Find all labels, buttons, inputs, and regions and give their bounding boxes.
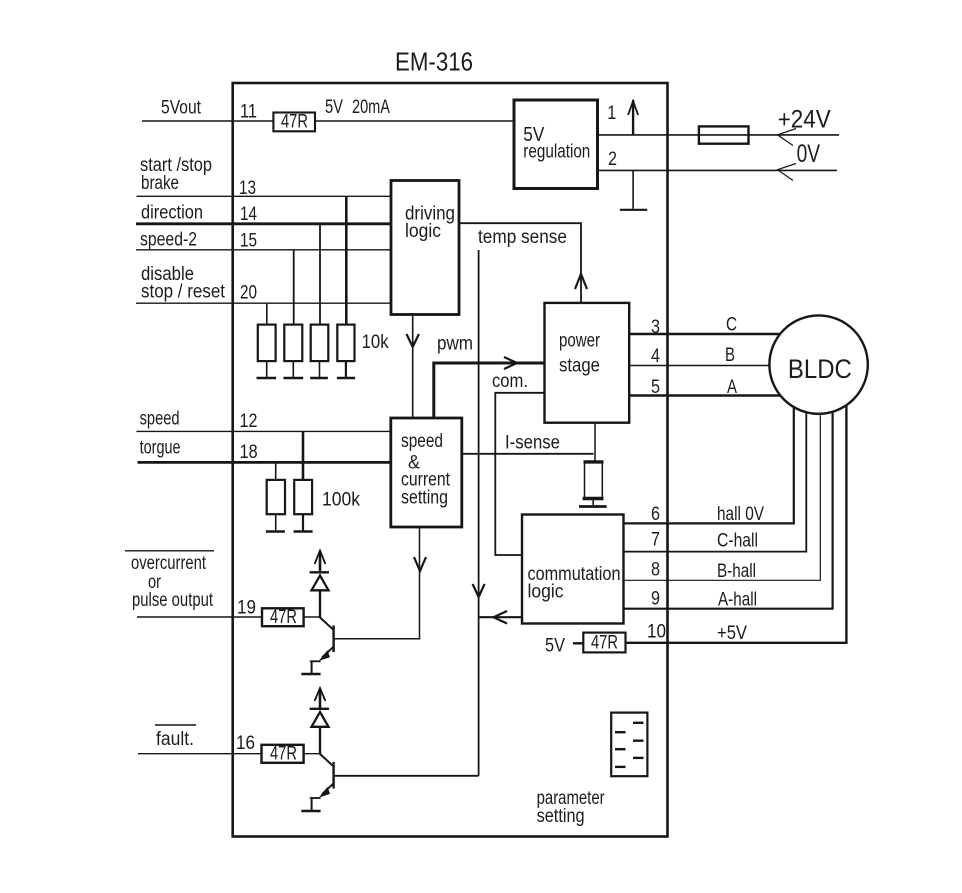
arrow left on 0V xyxy=(778,164,797,181)
wire pin18 xyxy=(138,461,392,464)
svg-text:pulse output: pulse output xyxy=(132,590,214,611)
fuse F1 xyxy=(699,126,749,143)
wire phase C xyxy=(629,333,780,335)
svg-text:com.: com. xyxy=(492,371,528,392)
label overline fault xyxy=(155,724,196,726)
svg-text:+24V: +24V xyxy=(778,106,831,134)
arrow left on +24V xyxy=(778,129,797,146)
motor BLDC M1 xyxy=(769,315,867,413)
wire 47R to Q2 xyxy=(304,753,320,755)
svg-text:0V: 0V xyxy=(797,140,821,168)
arrow down on x479 line xyxy=(473,584,485,597)
wire com. xyxy=(495,393,544,555)
wire I-sense xyxy=(462,453,594,455)
ground Q2 emitter xyxy=(301,798,320,811)
wire speed box output down to Q1 base xyxy=(334,527,420,639)
wire C-hall xyxy=(624,412,807,552)
wire phase B xyxy=(629,365,770,367)
svg-text:speed-2: speed-2 xyxy=(140,230,197,251)
wire power stage to I-sense resistor xyxy=(594,423,596,461)
resistor 10k #3 xyxy=(311,325,329,362)
svg-text:torgue: torgue xyxy=(140,438,181,459)
resistor 100k #2 xyxy=(294,480,312,514)
wire dropper pin18 to R 100k #1 xyxy=(275,462,277,480)
ground Q1 emitter xyxy=(301,661,320,674)
arrow up (pull-up) above D2 xyxy=(315,688,326,701)
resistor 100k #1 xyxy=(267,480,285,514)
svg-text:power: power xyxy=(559,331,601,352)
wire dropper pin15 to R pull-down 2 xyxy=(293,250,295,325)
svg-text:47R: 47R xyxy=(270,607,297,628)
svg-text:fault.: fault. xyxy=(156,729,194,750)
svg-text:setting: setting xyxy=(537,806,585,827)
transistor Q1 xyxy=(319,618,334,661)
resistor 10k #1 xyxy=(258,325,276,362)
wire dropper pin13 to R pull-down 4 xyxy=(345,196,348,324)
svg-text:temp sense: temp sense xyxy=(478,227,567,248)
svg-text:logic: logic xyxy=(405,221,441,242)
wire pin2 0V xyxy=(598,169,838,171)
svg-text:14: 14 xyxy=(240,204,257,225)
DIP switch parameter setting xyxy=(611,713,647,777)
transistor Q2 xyxy=(319,754,334,798)
svg-text:4: 4 xyxy=(651,346,660,367)
label overline overcurrent xyxy=(125,550,214,552)
wire Q2 base to node x479 xyxy=(334,775,479,777)
svg-text:B-hall: B-hall xyxy=(717,561,756,582)
svg-text:15: 15 xyxy=(240,231,257,252)
arrow up temp sense xyxy=(575,274,587,289)
arrow up (pull-up) above D1 xyxy=(315,551,326,565)
svg-text:I-sense: I-sense xyxy=(505,433,560,454)
arrow up power xyxy=(628,100,638,135)
svg-text:11: 11 xyxy=(240,102,257,123)
svg-text:regulation: regulation xyxy=(523,142,590,163)
wire pin13 xyxy=(137,195,392,197)
svg-text:hall 0V: hall 0V xyxy=(717,504,764,525)
wire pin11 to 5V regulation xyxy=(315,120,514,122)
wire +5V xyxy=(626,406,847,643)
svg-text:speed: speed xyxy=(140,409,180,430)
block commutation logic U5 xyxy=(522,515,624,624)
diode D1 xyxy=(310,552,329,619)
svg-text:16: 16 xyxy=(236,733,255,754)
svg-text:brake: brake xyxy=(141,173,179,194)
wire pin12 xyxy=(136,430,391,432)
wire driving logic output down xyxy=(412,315,414,419)
svg-text:A-hall: A-hall xyxy=(718,590,757,611)
ground 100k #2 xyxy=(294,514,313,531)
svg-text:5V: 5V xyxy=(545,636,565,657)
node line from temp-sense area down (x=479) xyxy=(478,250,480,776)
svg-text:C-hall: C-hall xyxy=(717,531,758,552)
svg-text:20: 20 xyxy=(240,283,257,304)
wire dropper pin14 to R pull-down 3 xyxy=(319,224,321,325)
wire stub 5V to 47R xyxy=(573,642,583,644)
svg-text:+5V: +5V xyxy=(717,623,747,644)
svg-text:2: 2 xyxy=(608,149,617,170)
resistor 10k #4 xyxy=(337,325,354,362)
resistor I-sense shunt xyxy=(583,462,604,499)
svg-text:10k: 10k xyxy=(362,332,389,353)
wire dropper pin12 to R 100k #2 xyxy=(302,431,305,480)
arrow down on speed box output xyxy=(414,557,426,571)
ground R1 xyxy=(257,361,277,378)
svg-text:12: 12 xyxy=(240,411,258,432)
svg-text:7: 7 xyxy=(651,530,660,551)
svg-text:5V: 5V xyxy=(325,97,343,118)
svg-text:pwm: pwm xyxy=(437,334,473,355)
resistor 47R (pin 11) xyxy=(273,112,315,133)
wire pin1 +24V xyxy=(598,134,840,136)
svg-text:1: 1 xyxy=(607,103,616,124)
svg-text:B: B xyxy=(725,345,735,366)
svg-text:logic: logic xyxy=(528,582,564,603)
diode D2 xyxy=(310,689,329,755)
svg-text:A: A xyxy=(727,377,737,398)
wire B-hall xyxy=(624,414,821,580)
svg-text:direction: direction xyxy=(141,203,203,224)
arrow left on commutation wire xyxy=(494,611,508,624)
ground below 5V regulation xyxy=(620,170,648,209)
svg-text:19: 19 xyxy=(237,598,256,619)
wire pin19 xyxy=(137,616,262,618)
block driving logic U1 xyxy=(391,181,459,315)
svg-text:47R: 47R xyxy=(591,633,618,654)
svg-text:10: 10 xyxy=(647,622,666,643)
svg-text:overcurrent: overcurrent xyxy=(131,553,207,574)
svg-text:9: 9 xyxy=(651,589,660,610)
svg-text:47R: 47R xyxy=(270,744,297,765)
wire temp sense xyxy=(459,223,581,303)
wire pin14 xyxy=(136,222,391,225)
ground R3 xyxy=(310,361,328,378)
svg-text:100k: 100k xyxy=(322,490,360,511)
ground R2 xyxy=(283,361,303,378)
wire phase A xyxy=(629,394,781,396)
svg-text:C: C xyxy=(726,315,737,336)
svg-text:8: 8 xyxy=(651,560,660,581)
wire pin15 xyxy=(136,249,391,251)
block speed & current setting U2 xyxy=(391,418,462,527)
block 5V regulation U3 xyxy=(514,100,598,189)
wire dropper pin20 to R pull-down 1 xyxy=(266,303,268,324)
ground 100k #1 xyxy=(266,514,285,531)
resistor 47R (pin 19) xyxy=(262,607,304,628)
svg-text:6: 6 xyxy=(651,504,660,525)
svg-text:stop / reset: stop / reset xyxy=(141,282,226,303)
wire pwm xyxy=(434,363,545,418)
block power stage U4 xyxy=(545,303,630,423)
svg-text:18: 18 xyxy=(240,442,258,463)
svg-text:speed: speed xyxy=(401,431,443,452)
svg-text:BLDC: BLDC xyxy=(788,354,852,384)
arrow right pwm xyxy=(504,357,517,369)
resistor 47R (pin 10) xyxy=(583,633,625,654)
ground R4 xyxy=(337,361,355,378)
wire pin11 left xyxy=(142,120,273,122)
wire hall 0V xyxy=(624,407,794,524)
ground I-sense xyxy=(579,500,607,507)
wire A-hall xyxy=(624,412,833,609)
svg-text:47R: 47R xyxy=(281,112,308,133)
svg-text:EM-316: EM-316 xyxy=(395,47,473,77)
wire pin16 xyxy=(138,753,262,755)
wire commutation logic to node x479 xyxy=(479,616,522,618)
wire 47R to Q1 xyxy=(304,616,320,618)
svg-text:setting: setting xyxy=(401,488,448,509)
svg-text:stage: stage xyxy=(559,356,600,377)
controller outline box xyxy=(233,83,668,837)
arrow down on driving logic output xyxy=(407,334,419,347)
svg-text:5Vout: 5Vout xyxy=(161,98,202,119)
wire pin20 xyxy=(136,302,391,304)
resistor 10k #2 xyxy=(284,325,302,362)
resistor 47R (pin 16) xyxy=(262,744,304,765)
svg-text:20mA: 20mA xyxy=(352,97,390,118)
